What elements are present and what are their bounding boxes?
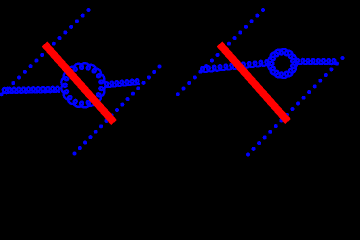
eikonal line lower-right diagram 2 <box>246 56 345 157</box>
eikonal line upper-left diagram 1 <box>0 8 91 96</box>
eikonal line lower-right diagram 1 <box>73 65 162 156</box>
cut line diagram 2 <box>220 44 289 122</box>
gluon left segment diagram 1 <box>2 87 60 94</box>
cut line diagram 1 <box>45 44 115 123</box>
eikonal line upper-left diagram 2 <box>176 8 265 96</box>
gluon left segment diagram 2 <box>200 60 270 72</box>
gluon right segment diagram 1 <box>105 79 141 87</box>
gluon self-energy loop diagram 1 <box>61 63 105 107</box>
gluon self-energy loop diagram 2 <box>268 49 297 78</box>
gluon right segment diagram 2 <box>295 59 337 64</box>
